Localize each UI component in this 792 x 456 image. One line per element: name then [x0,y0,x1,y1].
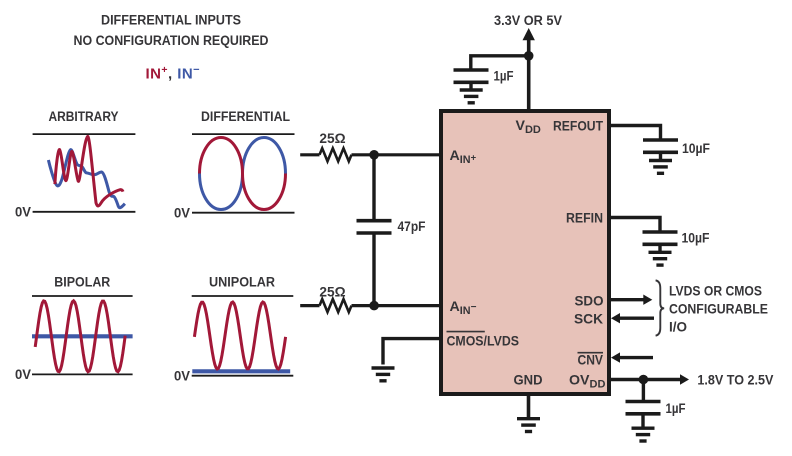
arrow SCK in [611,313,620,323]
op-amp / ADC IC U1 body [441,111,609,394]
svg-text:CMOS/LVDS: CMOS/LVDS [447,333,520,349]
bipolar red sine trace [35,301,125,372]
svg-text:CONFIGURABLE: CONFIGURABLE [669,301,768,317]
unipolar red sine trace [194,302,285,369]
capacitor C2 47pF plates [357,221,392,233]
svg-text:ARBITRARY: ARBITRARY [49,109,119,125]
arbitrary 0V rail [33,211,136,213]
supply arrow up [523,28,535,40]
differential red trace [200,138,286,210]
capacitor C1 1uF plates [454,70,489,82]
svg-text:LVDS OR CMOS: LVDS OR CMOS [669,283,762,299]
wire REFOUT to C3 [609,126,661,140]
bipolar panel top rail [32,295,133,297]
wire SCK input [619,317,654,320]
ground for C4 [649,252,672,265]
unipolar 0V rail [192,375,294,377]
wire VDD supply vertical [527,38,531,111]
wire SDO output [609,298,644,301]
differential 0V rail [192,212,295,214]
wire to bypass cap C1 [471,56,529,70]
unipolar panel top rail [192,295,294,297]
differential panel top rail [192,133,295,135]
wire node AIN+ down to C2 [372,155,375,220]
arbitrary panel top rail [33,133,136,135]
junction dot node AIN+ [369,150,379,160]
ground for C3 [649,161,672,174]
arbitrary waveform red trace [55,136,123,205]
svg-text:IN+, IN−: IN+, IN− [146,64,201,82]
resistor R1 25 Ohm [320,148,352,161]
svg-text:REFOUT: REFOUT [553,119,603,135]
unipolar blue zero line [192,369,290,373]
wire OVDD out [609,378,681,381]
wire AIN- input left segment [300,304,319,307]
junction dot OVDD node [639,375,649,385]
wire C4 to ground [658,244,661,252]
svg-text:UNIPOLAR: UNIPOLAR [209,274,275,290]
svg-text:SDO: SDO [575,294,604,310]
differential blue trace [200,138,286,210]
resistor R2 25 Ohm [320,299,352,312]
wire CMOS/LVDS pin to ground [383,339,441,365]
svg-text:GND: GND [514,372,543,388]
svg-text:CNV: CNV [578,352,604,368]
svg-text:REFIN: REFIN [566,210,603,226]
svg-text:47pF: 47pF [398,219,426,235]
svg-text:3.3V OR 5V: 3.3V OR 5V [494,13,562,29]
junction dot VDD node [524,51,534,61]
arbitrary waveform blue trace [48,150,125,208]
svg-text:10µF: 10µF [682,141,710,157]
wire REFIN to C4 [609,218,660,232]
bipolar blue midscale line [32,334,133,338]
wire GND pin down [527,394,531,417]
svg-text:25Ω: 25Ω [319,131,345,147]
svg-text:I/O: I/O [669,319,687,335]
wire C2 down to node AIN- [372,233,375,306]
svg-text:1.8V TO 2.5V: 1.8V TO 2.5V [697,372,773,388]
capacitor C4 10uF plates [643,232,678,244]
svg-text:BIPOLAR: BIPOLAR [54,274,110,290]
arrow OVDD supply [680,374,689,384]
ground for GND pin [517,419,540,432]
wire R1 to AIN+ pin [352,153,442,156]
wire OVDD node down to C5 [642,380,645,401]
svg-text:10µF: 10µF [682,230,710,246]
svg-text:SCK: SCK [574,312,604,328]
svg-text:1µF: 1µF [666,401,686,417]
svg-text:NO CONFIGURATION REQUIRED: NO CONFIGURATION REQUIRED [74,33,269,49]
svg-text:25Ω: 25Ω [319,285,345,301]
wire AIN+ input left segment [300,153,319,156]
brace for I/O group [656,280,665,335]
svg-text:0V: 0V [174,206,190,222]
wire C3 to ground [659,152,662,160]
arrow SDO out [643,295,652,305]
ground for C5 [632,428,655,441]
wire C1 to ground [469,82,472,90]
capacitor C3 10uF plates [643,140,678,152]
bipolar 0V rail [32,373,133,375]
ground for CMOS/LVDS pin [372,368,395,381]
svg-text:DIFFERENTIAL INPUTS: DIFFERENTIAL INPUTS [101,13,241,29]
junction dot node AIN- [369,301,379,311]
wire CNV input [619,356,653,359]
svg-text:DIFFERENTIAL: DIFFERENTIAL [201,109,290,125]
wire C5 to ground [641,414,644,427]
arrow CNV in [611,352,620,362]
svg-text:0V: 0V [15,205,31,221]
capacitor C5 1uF plates [626,402,661,414]
svg-text:1µF: 1µF [494,68,514,84]
ground for C1 [460,90,483,103]
wire R2 to AIN- pin [352,304,442,307]
svg-text:0V: 0V [15,367,31,383]
svg-text:0V: 0V [174,369,190,385]
